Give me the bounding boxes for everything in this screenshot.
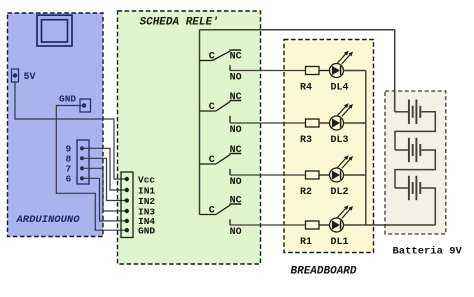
relay common bus wire [199,30,201,215]
battery cell B2 [395,138,435,188]
svg-text:DL2: DL2 [331,187,349,198]
relay K2 switch blade (C to NC) [216,101,230,111]
wire DL4 to cathode bus [344,70,366,72]
Arduino 5V pin [12,69,19,82]
wire relay NO to resistor R1 [230,224,306,226]
svg-text:SCHEDA RELE': SCHEDA RELE' [140,17,219,29]
relay K2 NO contact tick [229,116,231,123]
svg-text:C: C [209,155,215,166]
svg-text:R1: R1 [300,237,312,248]
battery pack outline [385,91,446,234]
svg-text:NC: NC [230,52,242,63]
svg-text:NC: NC [230,195,242,206]
relay K4 C terminal wire [200,214,217,216]
wire relay NO to resistor R2 [230,174,306,176]
wire pin9 to IN1 [82,148,127,190]
svg-text:5V: 5V [24,72,36,83]
Arduino GND pin [80,99,91,112]
relay K4 switch blade (C to NC) [216,205,230,215]
wire pin6 to IN4 [82,178,127,221]
relay K3 NO contact tick [229,169,231,175]
svg-text:Vcc: Vcc [138,174,155,185]
wire relay NO to resistor R4 [230,70,306,72]
LED DL2 [330,155,354,182]
wire R2 to DL2 [319,174,330,176]
wire 5V to Vcc [15,82,127,179]
Arduino Uno board outline [8,13,104,237]
relay K2 C terminal wire [200,110,217,112]
resistor R2 [306,171,320,179]
Arduino digital pin header 9-6 [77,140,89,184]
wire GND to relay GND [56,106,127,231]
svg-text:NC: NC [230,145,242,156]
relay K3 switch blade (C to NC) [216,154,230,164]
relay K4 NO contact tick [229,219,231,225]
resistor R4 [306,67,320,75]
svg-text:NO: NO [230,177,242,188]
relay K1 NC contact bar [230,49,242,51]
wire DL1 to cathode bus [344,224,436,226]
relay K3 C terminal wire [200,163,217,165]
relay board outline SCHEDA RELE' [118,11,261,264]
battery cell B3 [395,176,435,225]
Arduino USB connector [37,15,72,46]
svg-text:GND: GND [138,226,155,237]
relay K4 NC contact bar [230,203,242,205]
relay K3 NC contact bar [230,153,242,155]
svg-text:R4: R4 [300,82,312,93]
wire R3 to DL3 [319,122,330,124]
relay K1 C terminal wire [200,60,213,62]
wire R4 to DL4 [319,70,330,72]
relay K1 switch blade (C to NC) [213,51,231,61]
wire DL2 to cathode bus [344,174,366,176]
wire relay NO to resistor R3 [230,122,306,124]
wire pin8 to IN2 [82,158,127,200]
svg-text:IN1: IN1 [138,185,155,196]
LED cathode bus wire [365,71,367,226]
svg-text:GND: GND [59,94,76,105]
svg-text:NO: NO [230,227,242,238]
svg-text:6: 6 [66,174,72,185]
svg-text:IN2: IN2 [138,196,155,207]
svg-text:DL1: DL1 [331,237,349,248]
svg-text:C: C [209,52,215,63]
relay board input connector J1 [121,172,133,238]
resistor R3 [306,119,320,127]
svg-text:NO: NO [230,72,242,83]
svg-text:BREADBOARD: BREADBOARD [291,266,357,278]
relay K1 NO contact tick [229,65,231,70]
wire DL3 to cathode bus [344,122,366,124]
wire pin7 to IN3 [82,168,127,211]
wire R1 to DL1 [319,224,330,226]
wire battery positive drop [394,30,396,112]
svg-text:DL4: DL4 [331,82,349,93]
LED DL3 [330,103,354,130]
LED DL4 [330,51,354,78]
svg-text:R3: R3 [300,135,312,146]
svg-text:DL3: DL3 [331,135,349,146]
resistor R1 [306,221,320,229]
LED DL1 [330,205,354,232]
battery cell B1 [395,100,435,150]
svg-text:ARDUINOUNO: ARDUINOUNO [16,214,81,226]
svg-text:C: C [209,102,215,113]
breadboard outline [284,40,374,253]
svg-text:Batteria 9V: Batteria 9V [393,245,463,257]
wire bus to battery positive [200,29,395,31]
svg-text:NC: NC [230,92,242,103]
svg-text:NO: NO [230,125,242,136]
relay K2 NC contact bar [230,100,242,102]
svg-text:R2: R2 [300,187,312,198]
svg-text:C: C [209,206,215,217]
